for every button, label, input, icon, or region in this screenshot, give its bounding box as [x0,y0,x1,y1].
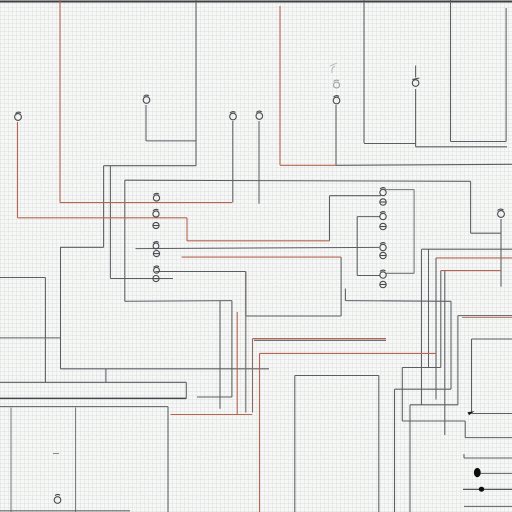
wire vertical x428.5 [428,249,430,367]
wire vertical x232 pin stem [232,121,234,203]
red wire y353.4 [260,352,437,354]
red wire y217.8 [18,217,188,219]
wire vertical x168 [167,407,169,512]
red wire x280 [279,6,281,165]
wire horizontal y315.6 east [458,315,512,317]
red wire y338.6 [253,338,387,340]
wire pin stub above x416.5 [415,66,417,78]
wire vertical x451 [450,301,452,389]
wire stub y397 [197,396,232,398]
wire horizontal y382.3 [0,381,186,383]
wire horizontal y247.3 [60,246,104,248]
wire corner y339 east [472,338,512,340]
wire vertical x124.8 [124,180,126,301]
junction arrow (471,412) [468,411,475,415]
wire horizontal y406.6 [0,406,168,408]
wire U3 right x506.1 [505,8,507,142]
wire rung x110.4 [109,166,111,279]
wire bracket right x414.1 [413,190,415,274]
wire pin stem x501 [500,219,502,287]
wire vertical x465.2 [464,421,466,438]
pin P1 (17,117) [15,112,22,120]
wire vertical x421.5 [421,249,423,405]
wire pin stem x336 [335,105,337,165]
wire vertical x105.9 [105,369,107,383]
wire vertical x75.5 [75,408,77,512]
wire horizontal y421 [402,420,465,422]
wire bottom edge [0,510,130,512]
wire horizontal y437.6 [465,437,512,439]
wire riser x345.4 [344,289,346,301]
wire pin stem x416.5 [415,89,417,147]
red wire y165.3 [280,164,336,166]
wire stub y278.5 [110,278,173,280]
wire horizontal y413.5 [472,413,512,415]
wire vertical x196 from top [195,0,197,166]
wire vertical x45.4 [44,278,46,383]
red wire x245.8 lower [245,272,247,413]
pin P5 (336,100) [333,96,340,104]
wire vertical x436 [435,258,437,400]
wire rect right x378.8 [378,376,380,512]
wire horizontal y389.2 [395,388,452,390]
pin P2 (146,100) [143,95,150,103]
wire bracket lead y273.3 [386,272,414,274]
wire vertical x220 [219,301,221,409]
wire tick y457.7 [464,454,512,458]
wire vertical x329.5 [329,196,331,241]
red wire pin x17 [17,122,19,218]
wire y488 [463,488,512,490]
wire vertical x186.3 [185,382,187,398]
pin P5c faint (334,69) [330,63,337,73]
wire bracket left x357.2 [356,217,358,276]
wire snake y271.5 [155,271,246,273]
pin P3 (232,115) [230,112,237,120]
wire horizontal y233.2 [471,232,501,234]
red wire elbow x252.5 [252,339,254,413]
wire horizontal y367.4 [61,368,270,370]
junction dot big (477.5,473) [474,468,481,477]
pin P5b faint (336,85) [334,80,340,88]
wire vertical x457.9 [457,316,459,405]
wire vertical x470.6 [470,181,472,233]
wire snake y316 [246,315,341,317]
wire pin stem x146 [145,105,147,141]
wire horizontal y301 east [345,300,451,303]
wire lead y195.7 to pin column [330,195,382,197]
pin P4 (258,112) [256,111,263,119]
paper grain [0,0,1,1]
wire stub y277.5 left [0,277,45,279]
wire vertical x402.3 [401,368,403,422]
wire vertical x231.9 [231,301,233,397]
wire bus y249 east [422,248,512,250]
pin P8 (57,500) [54,494,61,503]
pin column B x383 [380,188,386,196]
wire horizontal y181 long [125,180,471,181]
pin P7 (501,214) [498,209,505,217]
wire y473.5 [481,472,512,474]
wire snake x341.1 [340,257,342,316]
wire horizontal y404.8 [410,404,458,406]
wire vertical x103.6 [103,166,105,248]
wire U3 bottom y141.5 [451,141,507,143]
wire top border [0,1,512,3]
wire vertical x440.8 [440,271,442,368]
red wire x187 [186,218,188,241]
wire vertical x11 [10,408,12,512]
red wire y270.6 [441,270,501,272]
red wire y414.5 [171,414,253,416]
wire horizontal y338 left [0,337,61,339]
wire horizontal y165.7 west [104,165,196,167]
wire U1 bottom y143.5 [364,143,415,145]
wire pin stem x258.5 [258,121,260,204]
wire U1 left x364 [363,0,365,143]
red wire y241 [187,240,330,242]
wire bracket lead y275.5 [357,275,380,277]
red wire x259.5 [259,353,261,512]
red wire y317.4 [462,316,512,318]
wire snake x245.8 [245,272,247,317]
wire vertical x471.5 lower [471,339,473,414]
junction dot small (481,488) [479,487,484,492]
red wire y257.7 east [436,257,512,259]
red wire x60 [59,0,61,203]
red wire x237.2 [236,312,238,415]
wire vertical x394.5 [394,389,396,512]
wire horizontal y367.5 east [402,367,441,369]
wire bracket lead y216.6 [357,216,380,218]
wire U2 bottom y147.4 [416,146,507,148]
wire horizontal y165 east [336,164,512,165]
wire horizontal y398.2 dark [0,397,186,399]
wire long bus y248 mid [136,247,380,248]
wire horizontal y301 west [125,300,232,303]
wire vertical x444.8 [444,271,446,435]
wire dark y340.3 [254,339,386,341]
wire U3 left x450.5 [450,0,452,142]
wire rect top y375.5 [295,375,379,377]
pin column A x155 [153,193,159,201]
wire vertical x60 lower [60,247,62,368]
wire lead y140.5 [146,140,196,142]
wire vertical x416.7 [409,405,411,512]
red wire y202.6 [60,202,232,204]
wire y506.4 [464,505,512,507]
wire bracket lead y189.6 [385,189,414,191]
pin P6 (416,85) [412,78,419,86]
red wire y257.1 west [182,256,342,258]
wire rect left x294.8 [294,376,296,512]
mark small dash (55,462) [53,453,59,455]
